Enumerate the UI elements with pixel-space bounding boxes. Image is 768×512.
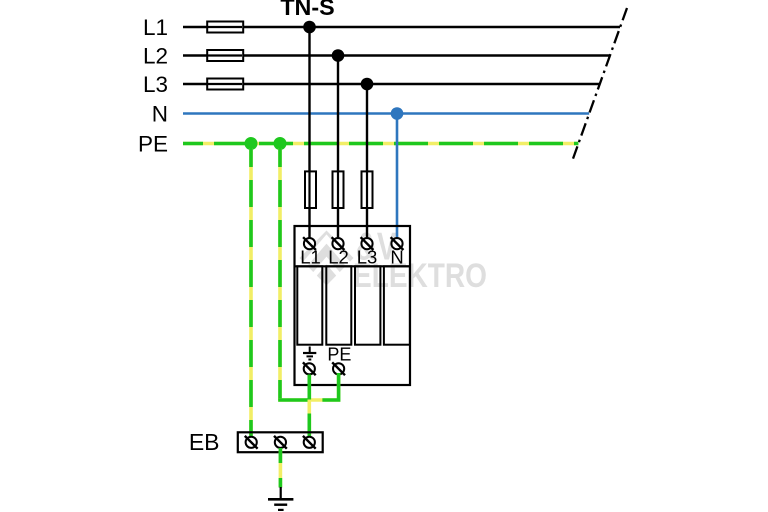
fuse F1 bbox=[207, 22, 243, 33]
terminal N bbox=[391, 237, 404, 250]
svg-text:L1: L1 bbox=[300, 247, 321, 268]
terminal L2 bbox=[332, 237, 345, 250]
SPD module 4 bbox=[384, 266, 410, 344]
junction dot N bbox=[391, 107, 404, 120]
svg-text:PE: PE bbox=[138, 132, 168, 157]
wire L1 drop bbox=[308, 27, 310, 239]
wire N drop bbox=[396, 114, 399, 239]
SPD earth symbol bbox=[303, 347, 316, 360]
wire L2 drop bbox=[337, 56, 339, 239]
svg-text:EB: EB bbox=[189, 429, 220, 455]
wire N bus bbox=[183, 112, 589, 115]
junction dot L1 bbox=[303, 21, 316, 34]
wire L3 bus bbox=[183, 83, 600, 85]
wire EB to earth bbox=[279, 448, 283, 488]
svg-text:TN-S: TN-S bbox=[280, 0, 334, 20]
svg-text:N: N bbox=[152, 102, 168, 127]
wire L3 drop bbox=[366, 84, 368, 239]
earth symbol bottom bbox=[268, 487, 293, 510]
wire PE drop 2 bbox=[278, 148, 282, 400]
svg-text:N: N bbox=[390, 247, 403, 268]
SPD module 2 bbox=[326, 266, 351, 344]
fuse F3 bbox=[207, 79, 243, 90]
fuse F5 bbox=[333, 171, 344, 208]
wire PE bus bbox=[183, 142, 578, 145]
SPD divider top bbox=[295, 265, 411, 267]
terminal earth bbox=[303, 362, 316, 375]
svg-text:L3: L3 bbox=[357, 247, 378, 268]
svg-text:L1: L1 bbox=[143, 15, 168, 40]
EB terminal 2 bbox=[274, 436, 287, 449]
junction dot PE 1 bbox=[245, 137, 258, 150]
wire PE link to SPD bbox=[278, 373, 338, 400]
wire PE drop 1 bbox=[249, 148, 253, 437]
wire L1 bus bbox=[183, 26, 620, 28]
line continuation mark bbox=[572, 8, 627, 162]
terminal PE bbox=[332, 362, 345, 375]
junction dot L3 bbox=[361, 78, 374, 91]
SPD module 3 bbox=[355, 266, 380, 344]
fuse F4 bbox=[305, 171, 316, 208]
terminal L1 bbox=[303, 237, 316, 250]
watermark logo diamond bbox=[300, 231, 354, 286]
fuse F6 bbox=[362, 171, 373, 208]
svg-text:L3: L3 bbox=[143, 72, 168, 97]
EB terminal 3 bbox=[303, 436, 316, 449]
SPD device box U1 bbox=[295, 226, 411, 385]
wire earth terminal to EB bbox=[307, 375, 311, 437]
svg-text:PE: PE bbox=[327, 344, 351, 364]
wire L2 bus bbox=[183, 54, 610, 56]
EB terminal bar bbox=[238, 432, 323, 452]
terminal L3 bbox=[361, 237, 374, 250]
junction dot L2 bbox=[332, 49, 345, 62]
SPD module 1 bbox=[297, 266, 322, 344]
svg-text:L2: L2 bbox=[328, 247, 349, 268]
svg-text:L2: L2 bbox=[143, 44, 168, 69]
fuse F2 bbox=[207, 50, 243, 61]
junction dot PE 2 bbox=[274, 137, 287, 150]
EB terminal 1 bbox=[245, 436, 258, 449]
